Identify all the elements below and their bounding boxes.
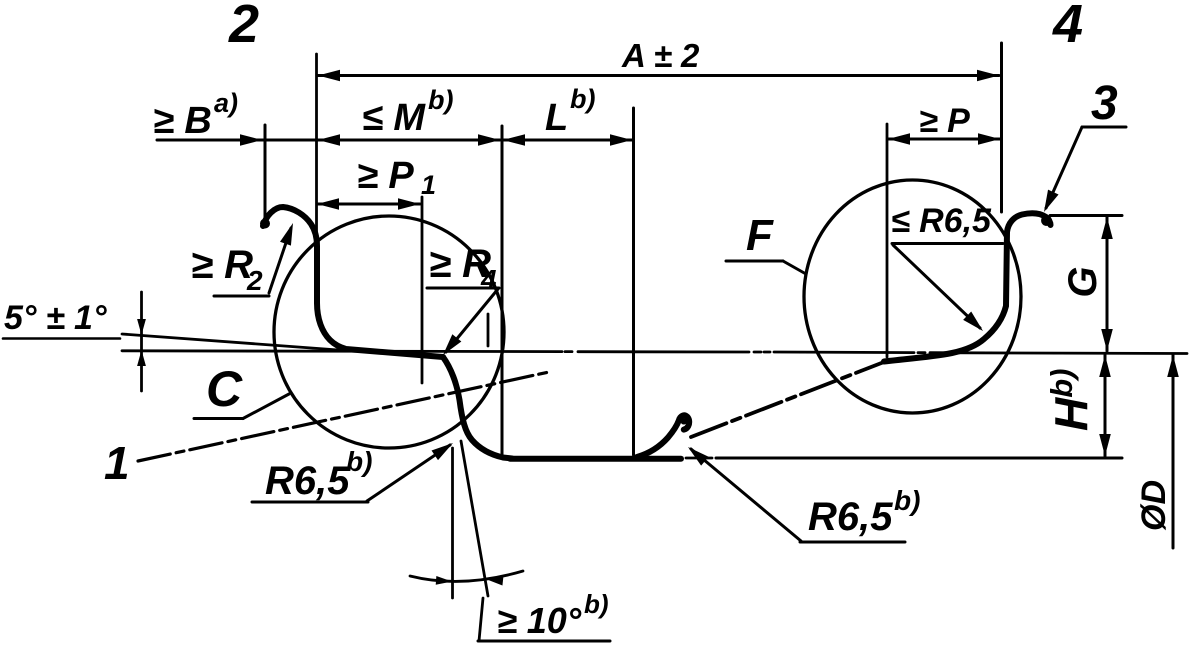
svg-text:a): a) — [214, 88, 238, 118]
extension line at x=887 (P left) — [886, 124, 889, 357]
wire: 5 degree bead-seat extension line (thin, sloped) — [122, 334, 345, 351]
leader item 3 — [1082, 126, 1126, 129]
svg-text:b): b) — [570, 84, 595, 114]
svg-text:≤ M: ≤ M — [362, 97, 426, 139]
leader R6,5 max (inside circle F) — [892, 242, 1003, 245]
extension line at x=422 (P1 right) — [421, 197, 424, 383]
svg-text:≥ P: ≥ P — [919, 102, 970, 140]
svg-text:b): b) — [346, 446, 372, 477]
svg-text:4: 4 — [1052, 0, 1083, 54]
dimension B (tail) and M line — [157, 139, 500, 142]
rim profile: left flange tip blob — [260, 219, 270, 229]
svg-text:b): b) — [894, 485, 920, 516]
svg-text:b): b) — [428, 85, 453, 115]
svg-text:R6,5: R6,5 — [265, 459, 350, 503]
extension line at x=502 (M right / L left) — [501, 126, 504, 456]
svg-text:≥ P: ≥ P — [357, 155, 414, 197]
rim profile: well bottom — [510, 456, 681, 462]
svg-text:1: 1 — [421, 170, 436, 200]
leader R6,5 left — [252, 501, 368, 504]
angle 10 deg: slanted reference — [461, 441, 488, 596]
svg-text:3: 3 — [1091, 77, 1118, 130]
svg-text:C: C — [206, 361, 243, 417]
dimension P1 — [317, 203, 420, 206]
svg-text:ØD: ØD — [1135, 480, 1173, 531]
leader C — [194, 417, 243, 420]
rim profile: right bead seat — [884, 232, 1007, 362]
extension line at x=633.5 (L right) — [632, 108, 635, 455]
svg-text:≤ R6,5: ≤ R6,5 — [891, 202, 992, 240]
extension line at x=1001.5 (A/P right) — [1000, 43, 1003, 212]
extension line at x=316.5 (flange inner face, A/M/P1 left) — [315, 54, 318, 250]
extension line at x=265 (B right) — [264, 125, 267, 223]
dimension diameter D — [1172, 355, 1175, 548]
svg-text:G: G — [1061, 266, 1105, 297]
wire: centre line (dash-dot axis) — [122, 351, 1187, 354]
rim profile: right flange curl — [1007, 213, 1051, 232]
rim profile: left flange curl — [263, 207, 317, 303]
dimension H vertical — [686, 457, 712, 460]
wire: underline of 5 deg label — [3, 337, 120, 340]
svg-text:F: F — [746, 211, 774, 260]
dimension A plus-minus 2 — [318, 74, 999, 77]
short tick near R4 — [487, 314, 490, 346]
svg-text:4: 4 — [480, 264, 497, 295]
wire: right slanted dash-dot line — [691, 362, 884, 437]
circle F inspection zone — [804, 180, 1021, 413]
svg-text:2: 2 — [246, 265, 263, 296]
node 1 slanted dash-dot line — [138, 372, 549, 461]
svg-text:R6,5: R6,5 — [808, 495, 893, 539]
svg-text:2: 2 — [228, 0, 259, 54]
leader R2 — [214, 295, 269, 298]
svg-text:L: L — [545, 97, 568, 139]
svg-text:≥ 10°: ≥ 10° — [497, 600, 582, 641]
dimension G vertical — [1050, 214, 1122, 217]
rim profile: well left wall — [443, 357, 512, 459]
dimension P right — [888, 138, 1000, 141]
leader R4 — [427, 287, 499, 290]
rim profile: radius R4 into 5 deg bead seat — [317, 303, 443, 357]
leader F — [726, 260, 783, 263]
angle 10 deg: arc with arrows — [410, 571, 523, 581]
svg-text:≥ R: ≥ R — [191, 243, 253, 287]
leader R6,5 right — [800, 541, 905, 544]
dimension L — [503, 139, 632, 142]
angle 10 deg: label connector — [479, 598, 483, 641]
angle 10 deg: vertical reference — [451, 448, 454, 598]
svg-text:A ± 2: A ± 2 — [621, 37, 700, 74]
angle 5 deg dimension line with arrows — [140, 292, 143, 391]
angle 10 deg: label underline — [478, 640, 610, 643]
svg-text:b): b) — [584, 589, 609, 619]
circle C inspection zone — [274, 216, 504, 448]
svg-text:5° ± 1°: 5° ± 1° — [4, 299, 107, 337]
rim profile: right flange tip blob — [1041, 215, 1052, 226]
svg-text:1: 1 — [104, 437, 130, 489]
rim profile: well right corner radius with broken-edge hook — [637, 415, 689, 457]
svg-text:≥ B: ≥ B — [153, 100, 212, 142]
